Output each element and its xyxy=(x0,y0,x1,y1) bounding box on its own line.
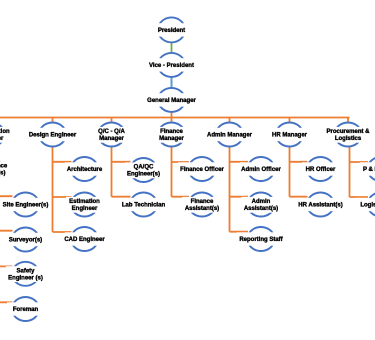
node Admin Manager xyxy=(207,123,253,147)
drop rail to Design Engineer xyxy=(52,118,54,126)
stub to Foreman xyxy=(0,301,13,303)
drop rail to Admin Manager xyxy=(229,118,231,126)
node Construction Manager xyxy=(0,123,11,147)
svg-text:Estimation: Estimation xyxy=(69,199,100,205)
svg-text:Architecture: Architecture xyxy=(67,167,103,173)
vertical under Design Engineer xyxy=(52,147,54,233)
horizontal rail xyxy=(0,117,350,119)
svg-text:Engineer(s): Engineer(s) xyxy=(127,172,160,178)
svg-text:Lab Technician: Lab Technician xyxy=(122,203,166,209)
svg-text:P & L Officer: P & L Officer xyxy=(363,167,375,173)
svg-text:Vice - President: Vice - President xyxy=(149,63,194,69)
svg-text:General Manager: General Manager xyxy=(147,98,196,104)
svg-text:Surveyor(s): Surveyor(s) xyxy=(9,238,42,244)
drop rail to Finance Manager xyxy=(171,118,173,126)
stub to Finance Officer xyxy=(172,161,190,163)
drop rail to Q/C - Q/A Manager xyxy=(111,118,113,126)
svg-text:Finance: Finance xyxy=(160,129,183,135)
node Finance Officer xyxy=(178,157,227,181)
stub to Logistics Staff xyxy=(350,196,369,198)
svg-text:QA/QC: QA/QC xyxy=(134,165,154,171)
node Finance Assistant(s) xyxy=(182,193,221,217)
node Finance Manager xyxy=(153,123,190,147)
node QA/QC Engineer(s) xyxy=(125,158,162,182)
node Admin Officer xyxy=(240,157,283,181)
node Site Engineer(s) xyxy=(0,193,51,217)
node Q/C - Q/A Manager xyxy=(93,123,130,147)
node Design Engineer xyxy=(28,123,77,147)
vertical under Procurement & Logistics xyxy=(349,147,351,198)
node Safety Engineer (s) xyxy=(6,262,45,286)
svg-text:Site Engineer(s): Site Engineer(s) xyxy=(3,203,49,209)
node Maintenance Engineer(s) (cut) xyxy=(0,157,8,181)
stub to HR Assistant(s) xyxy=(290,196,308,198)
stub to Site Engineer(s) xyxy=(0,195,13,197)
svg-text:Safety: Safety xyxy=(16,268,35,274)
svg-text:Maintenance: Maintenance xyxy=(0,164,8,170)
node HR Officer xyxy=(302,157,339,181)
node Reporting Staff xyxy=(237,227,286,251)
vertical under HR Manager xyxy=(289,147,291,197)
svg-text:Foreman: Foreman xyxy=(13,307,39,313)
svg-text:Q/C - Q/A: Q/C - Q/A xyxy=(98,129,125,135)
node Logistics Staff xyxy=(357,193,375,217)
svg-text:President: President xyxy=(158,28,185,34)
node P & L Officer xyxy=(360,157,375,181)
vertical under Admin Manager xyxy=(229,147,231,232)
svg-text:HR Officer: HR Officer xyxy=(306,167,336,173)
connector President to Vice-President (green) xyxy=(171,42,173,53)
connector Vice-President to General Manager (light blue) xyxy=(171,77,173,89)
svg-text:Finance Officer: Finance Officer xyxy=(180,167,224,173)
svg-text:Engineer (s): Engineer (s) xyxy=(8,276,43,282)
stub to HR Officer xyxy=(290,161,308,163)
stub to Reporting Staff xyxy=(230,231,249,233)
stub to P & L Officer xyxy=(350,161,369,163)
node CAD Engineer xyxy=(64,227,105,251)
stub to Admin Officer xyxy=(230,161,249,163)
node Estimation Engineer xyxy=(66,193,103,217)
node President xyxy=(153,17,190,42)
stub to Safety Engineer (s) xyxy=(0,265,13,267)
svg-text:Procurement &: Procurement & xyxy=(326,129,370,135)
node Vice - President xyxy=(146,53,198,77)
svg-text:Assistant(s): Assistant(s) xyxy=(185,206,219,212)
stub to Admin Assistant(s) xyxy=(230,196,249,198)
svg-text:CAD Engineer: CAD Engineer xyxy=(64,237,105,243)
stub to Architecture xyxy=(53,161,72,163)
svg-text:Admin: Admin xyxy=(252,199,271,205)
svg-text:Construction: Construction xyxy=(0,129,10,135)
svg-text:Engineer(s): Engineer(s) xyxy=(0,171,6,177)
stub to Surveyor(s) xyxy=(0,230,13,232)
svg-text:Reporting Staff: Reporting Staff xyxy=(239,237,283,243)
node Foreman xyxy=(7,297,44,321)
vertical under Finance Manager xyxy=(171,147,173,197)
stub to QA/QC Engineer(s) xyxy=(112,161,131,163)
connector General Manager drop xyxy=(171,111,173,118)
stub to Estimation Engineer xyxy=(53,196,72,198)
drop rail to Procurement & Logistics xyxy=(347,118,349,126)
node HR Assistant(s) xyxy=(296,193,345,217)
svg-text:Manager: Manager xyxy=(99,136,124,142)
svg-text:Logistics: Logistics xyxy=(335,136,362,142)
node Lab Technician xyxy=(121,193,167,217)
node Surveyor(s) xyxy=(7,228,44,252)
svg-text:HR Manager: HR Manager xyxy=(272,133,308,139)
svg-text:HR Assistant(s): HR Assistant(s) xyxy=(298,203,342,209)
drop rail to HR Manager xyxy=(289,118,291,126)
svg-text:Finance: Finance xyxy=(191,199,214,205)
node HR Manager xyxy=(271,123,308,147)
stub to CAD Engineer xyxy=(53,231,72,233)
svg-text:Assistant(s): Assistant(s) xyxy=(244,206,278,212)
svg-text:Logistics Staff: Logistics Staff xyxy=(360,203,375,209)
node Admin Assistant(s) xyxy=(241,193,280,217)
node General Manager xyxy=(147,88,196,112)
stub to Lab Technician xyxy=(112,196,131,198)
svg-text:Engineer: Engineer xyxy=(72,206,98,212)
node Procurement & Logistics xyxy=(326,123,370,147)
vertical under Q/C - Q/A Manager xyxy=(111,147,113,197)
svg-text:Admin Officer: Admin Officer xyxy=(241,167,281,173)
svg-text:Admin Manager: Admin Manager xyxy=(207,133,253,139)
svg-text:Manager: Manager xyxy=(159,136,184,142)
stub to Finance Assistant(s) xyxy=(172,196,190,198)
node Architecture xyxy=(65,157,104,181)
svg-text:Design Engineer: Design Engineer xyxy=(29,133,77,139)
